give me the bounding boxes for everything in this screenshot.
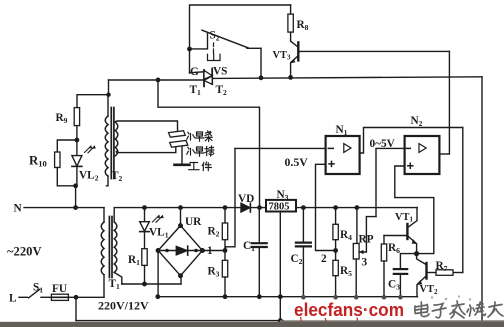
label welding text 焊条/焊接/工件: [187, 131, 214, 171]
capacitor C2: [296, 205, 311, 297]
node junction bottom rail: [278, 318, 283, 323]
wire N2 plus input: [395, 166, 434, 254]
wire welding loop: [115, 121, 177, 131]
wire N1 out riser to R7: [462, 128, 464, 273]
wire riser rail to VD node: [158, 80, 260, 208]
wire 7805 ground pin: [279, 212, 281, 297]
wire ground rail: [158, 296, 418, 298]
svg-text:N3: N3: [277, 189, 289, 202]
svg-text:VT2: VT2: [420, 284, 438, 296]
svg-text:R6: R6: [388, 242, 400, 255]
resistor R7: [427, 270, 463, 276]
node junction C3 gnd: [398, 295, 403, 300]
wire +5V: [296, 207, 417, 209]
ground (workpiece earth): [175, 147, 190, 165]
svg-text:RP: RP: [359, 234, 374, 246]
svg-text:VL1: VL1: [149, 227, 169, 240]
svg-text:R2: R2: [208, 226, 220, 239]
transistor VT1: [407, 208, 417, 254]
svg-text:R3: R3: [208, 266, 220, 279]
wire top box (S2 loop top): [190, 5, 291, 73]
svg-text:T1: T1: [190, 84, 202, 97]
接: [205, 146, 214, 156]
svg-text:VL2: VL2: [79, 170, 99, 183]
bridge rectifier UR: [156, 223, 205, 278]
switch S1: [19, 290, 51, 298]
wire S2 to rail: [260, 48, 262, 78]
capacitor C3: [394, 254, 417, 297]
svg-text:R7: R7: [436, 260, 448, 273]
wire T1 secondary bottom: [122, 283, 181, 285]
node junction VL2 bottom: [73, 183, 78, 188]
wire gate G: [190, 72, 204, 73]
resistor R8: [288, 5, 293, 41]
svg-text:C1: C1: [243, 240, 255, 253]
svg-text:G: G: [190, 66, 199, 78]
node junction S2-rail: [259, 75, 264, 80]
node junction C1 ground: [257, 294, 262, 299]
triac VS: [204, 69, 212, 87]
resistor R4: [333, 205, 338, 250]
svg-text:VT1: VT1: [395, 212, 413, 224]
wire N2 output: [439, 153, 449, 155]
工: [189, 163, 199, 170]
node junction 1 divider: [223, 248, 228, 253]
svg-text:N2: N2: [411, 115, 423, 128]
transistor VT3: [290, 41, 298, 77]
焊: [187, 132, 204, 141]
resistor R9: [74, 108, 79, 140]
wire main rail left of triac: [109, 79, 204, 81]
node junction RP gnd: [354, 295, 359, 300]
svg-text:R10: R10: [29, 154, 47, 169]
svg-text:R1: R1: [128, 254, 140, 267]
watermark artifacts gray dots: [431, 295, 471, 300]
capacitor C1: [252, 208, 267, 297]
友: [488, 302, 503, 317]
op-amp N1: [326, 136, 360, 174]
wire node1 to N1 inverting input: [225, 148, 235, 250]
transformer T2: [105, 95, 118, 186]
op-amp N2: [405, 136, 440, 174]
fuse FU: [51, 294, 104, 300]
wire main rail right of triac: [212, 77, 482, 79]
potentiometer RP: [353, 205, 376, 297]
电: [415, 302, 429, 317]
svg-text:elecfans·com: elecfans·com: [294, 299, 404, 320]
wire rail jog to R9 and T2 primary: [77, 80, 109, 108]
diode VD: [241, 203, 251, 212]
svg-text:L: L: [9, 293, 17, 305]
node junction S2 left: [187, 47, 192, 52]
svg-text:VT3: VT3: [273, 50, 291, 62]
LED VL2: [72, 140, 96, 186]
node junction VD-C1-7805: [257, 205, 262, 210]
svg-text:FU: FU: [52, 283, 67, 295]
bottom scan strip: [280, 320, 504, 322]
transformer T1: [101, 208, 122, 298]
svg-text:C3: C3: [388, 279, 400, 292]
resistor R1: [142, 249, 147, 284]
wire L drop: [75, 297, 77, 320]
resistor R2: [222, 205, 227, 250]
svg-text:R5: R5: [340, 265, 352, 278]
switch S2: [190, 30, 262, 60]
svg-text:N: N: [14, 203, 23, 215]
wire 7805 gnd to bottom rail: [279, 297, 281, 321]
svg-text:C2: C2: [291, 253, 303, 266]
svg-text:R9: R9: [56, 112, 68, 125]
svg-text:1: 1: [207, 245, 213, 257]
子: [432, 304, 446, 318]
wire workpiece return: [116, 147, 176, 152]
svg-text:N1: N1: [336, 124, 348, 137]
node junction R3 ground: [223, 294, 228, 299]
svg-text:T2: T2: [111, 170, 123, 183]
node junction rail-riser: [156, 78, 161, 83]
node junction 0.5V divider: [333, 248, 338, 253]
svg-text:UR: UR: [185, 216, 202, 228]
wire VT3 base drop to N2 output: [448, 51, 450, 154]
svg-text:R8: R8: [297, 19, 309, 32]
resistor R5: [333, 251, 338, 297]
wire bridge AC2 riser: [180, 276, 182, 284]
LED VL1: [140, 205, 164, 248]
wire VL2 branch to N line: [75, 186, 77, 208]
wire RP wiper to N2 inverting: [376, 148, 405, 216]
node junction R5 gnd: [333, 295, 338, 300]
svg-text:~220V: ~220V: [7, 245, 42, 259]
node junction 7805 gnd: [278, 294, 283, 299]
node junction fuse-T1: [74, 295, 79, 300]
wire VT1 base from R6: [384, 235, 407, 237]
workpiece plate: [170, 141, 188, 148]
条: [205, 131, 212, 142]
node junction VT1e/VT2c: [414, 251, 419, 256]
node junction DC- ground: [155, 294, 160, 299]
wire 0.5V node to N1 plus: [316, 164, 336, 250]
wire VT3 base: [298, 50, 449, 52]
watermark artifacts red: [301, 317, 358, 322]
electrode plate (welding rod): [169, 131, 186, 138]
svg-text:220V/12V: 220V/12V: [98, 299, 149, 313]
svg-text:2: 2: [321, 253, 327, 265]
resistor R10: [55, 140, 77, 186]
焊(2): [187, 147, 204, 156]
svg-text:S2: S2: [210, 30, 220, 43]
wire secondary top: [114, 207, 266, 209]
resistor R3: [222, 251, 227, 297]
node junction N-VL2: [73, 205, 78, 210]
件: [202, 162, 211, 171]
node junction R9/R10/VL2: [75, 138, 80, 143]
烧: [467, 302, 486, 316]
svg-text:7805: 7805: [269, 202, 290, 213]
svg-text:0.5V: 0.5V: [285, 155, 309, 169]
transistor VT2: [417, 254, 427, 297]
svg-text:VS: VS: [213, 66, 227, 78]
发: [450, 301, 465, 318]
node junction R6 gnd: [382, 295, 387, 300]
svg-text:3: 3: [362, 257, 368, 269]
wire right side return: [481, 77, 483, 320]
wire bridge DC- to ground rail: [157, 251, 159, 297]
node junction jog-T2: [106, 93, 110, 97]
node junction C2 gnd: [301, 295, 306, 300]
wire bridge AC1 riser: [180, 208, 182, 226]
svg-text:R4: R4: [340, 229, 352, 242]
wire N1 output: [360, 128, 463, 154]
node junction R1 bottom: [142, 282, 147, 287]
wire bottom return rail: [76, 320, 283, 322]
node junction VT3 emitter-rail: [288, 75, 293, 80]
wire N line: [24, 207, 104, 209]
regulator N3 7805: [266, 200, 296, 213]
svg-text:VD: VD: [238, 193, 254, 205]
resistor R6: [381, 236, 386, 297]
svg-text:T1: T1: [109, 278, 121, 291]
wire node 1: [202, 250, 225, 252]
node junction AC1: [178, 205, 183, 210]
label 电子发烧友 watermark: [415, 301, 503, 318]
svg-text:T2: T2: [216, 84, 228, 97]
svg-text:S1: S1: [33, 281, 43, 294]
